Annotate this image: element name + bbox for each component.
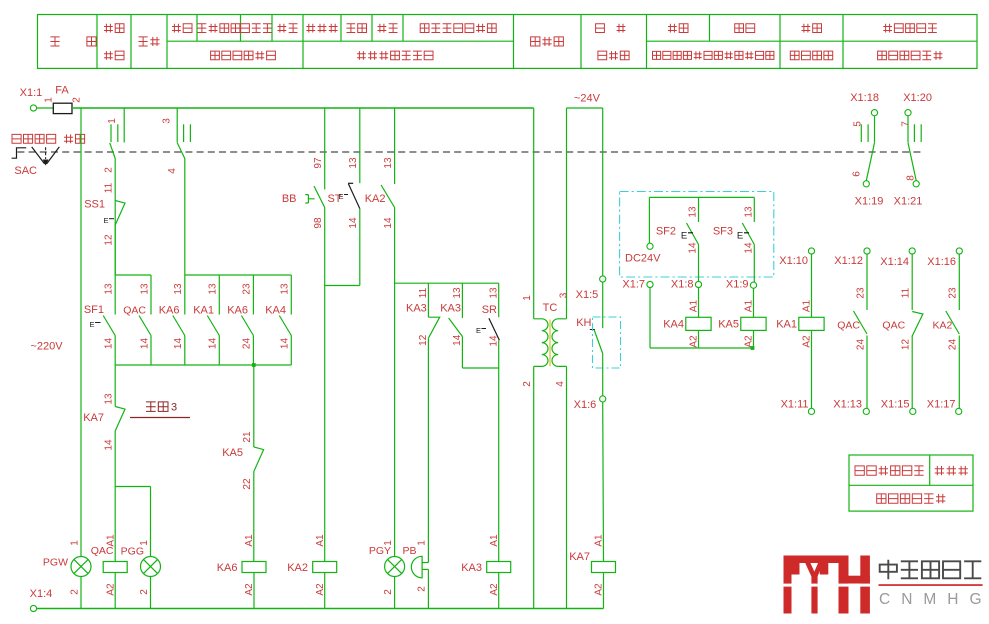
contact KA5 21-22 — [222, 365, 263, 562]
svg-text:SR: SR — [482, 304, 497, 316]
terminal X1:19 — [855, 181, 884, 208]
terminal X1:14 — [880, 248, 915, 268]
svg-text:KA5: KA5 — [718, 319, 739, 331]
svg-text:21: 21 — [242, 431, 253, 443]
svg-text:E: E — [681, 231, 687, 242]
terminal X1:6 — [574, 396, 606, 411]
terminal X1:12 — [834, 248, 870, 267]
transformer TC — [522, 108, 570, 609]
svg-text:X1:21: X1:21 — [894, 196, 923, 208]
contact KA3 11-12 — [406, 283, 440, 346]
terminal X1:16 — [927, 248, 962, 268]
svg-text:SS1: SS1 — [84, 198, 105, 210]
contact KA2 13-14 — [365, 108, 395, 229]
svg-text:3: 3 — [162, 118, 173, 124]
svg-text:1: 1 — [417, 540, 428, 546]
svg-text:KA1: KA1 — [193, 304, 214, 316]
svg-text:SAC: SAC — [14, 165, 37, 177]
svg-text:13: 13 — [104, 393, 115, 405]
svg-text:11: 11 — [104, 182, 115, 193]
button BB 97-98 — [282, 108, 325, 229]
svg-text:14: 14 — [452, 334, 463, 346]
terminal X1:17 — [927, 398, 962, 414]
svg-text:X1:13: X1:13 — [833, 398, 862, 410]
svg-text:13: 13 — [173, 283, 184, 295]
svg-text:14: 14 — [173, 338, 184, 350]
svg-text:A1: A1 — [315, 534, 326, 547]
svg-text:24: 24 — [948, 339, 959, 351]
svg-text:PGG: PGG — [121, 545, 144, 557]
svg-text:E: E — [338, 192, 343, 201]
terminal X1:20 — [903, 92, 932, 116]
svg-text:X1:20: X1:20 — [903, 92, 932, 104]
wire branch to PGG — [115, 487, 150, 557]
wire X1:6 to KA7 coil — [602, 402, 605, 562]
svg-text:1: 1 — [139, 540, 150, 546]
svg-text:14: 14 — [488, 335, 499, 347]
wire KA3a down to PB — [427, 338, 429, 562]
svg-text:X1:11: X1:11 — [781, 398, 809, 410]
logo CNMHG — [780, 556, 989, 614]
svg-text:KA2: KA2 — [287, 562, 308, 574]
svg-text:14: 14 — [208, 338, 219, 350]
contact QAC 13-14 — [123, 275, 151, 365]
svg-text:4: 4 — [167, 168, 178, 174]
svg-text:KA3: KA3 — [440, 302, 461, 314]
svg-text:X1:17: X1:17 — [927, 398, 956, 410]
terminal X1:11 — [781, 398, 815, 414]
svg-text:2: 2 — [383, 589, 394, 595]
contact KH — [576, 282, 602, 353]
svg-text:X1:10: X1:10 — [779, 255, 808, 267]
svg-text:X1:7: X1:7 — [622, 278, 645, 290]
terminal X1:1 — [20, 87, 43, 111]
svg-text:KA4: KA4 — [663, 319, 684, 331]
svg-text:13: 13 — [280, 283, 291, 295]
wire X1:1 to fuse — [37, 107, 54, 109]
svg-text:1: 1 — [383, 540, 394, 546]
svg-text:14: 14 — [688, 242, 699, 254]
svg-text:~220V: ~220V — [30, 340, 63, 352]
contact KA4 13-14 — [265, 275, 291, 365]
svg-text:2: 2 — [417, 586, 428, 592]
contact SF1 13-14 — [84, 275, 115, 365]
switch SS1 contact 11-12 — [84, 182, 125, 245]
svg-text:13: 13 — [104, 283, 115, 295]
contact QAC 23-24 — [837, 254, 867, 408]
svg-text:4: 4 — [555, 381, 566, 387]
switch SAC pole contact 5-6 — [852, 116, 875, 181]
svg-text:X1:5: X1:5 — [576, 289, 599, 301]
svg-text:22: 22 — [242, 478, 253, 490]
svg-text:14: 14 — [743, 242, 754, 254]
coil KA1 — [776, 254, 824, 408]
svg-text:97: 97 — [313, 157, 324, 169]
contact SF2 13-14 — [656, 197, 699, 253]
table header labels — [50, 24, 942, 60]
svg-text:14: 14 — [348, 217, 359, 229]
svg-text:FA: FA — [55, 84, 69, 96]
svg-text:14: 14 — [280, 338, 291, 350]
svg-text:CNMHG: CNMHG — [879, 591, 989, 608]
svg-text:2: 2 — [104, 167, 115, 173]
terminal X1:21 — [894, 181, 923, 208]
svg-text:SF3: SF3 — [713, 225, 733, 237]
svg-text:KA5: KA5 — [222, 447, 243, 459]
wire KH down — [602, 354, 604, 396]
svg-text:A1: A1 — [689, 299, 700, 312]
svg-text:24: 24 — [242, 338, 253, 350]
svg-text:KA6: KA6 — [217, 562, 238, 574]
svg-text:6: 6 — [852, 171, 863, 177]
svg-text:5: 5 — [853, 121, 864, 127]
contact KA6 23-24 — [227, 275, 253, 365]
svg-text:DC24V: DC24V — [625, 252, 661, 264]
svg-text:14: 14 — [383, 217, 394, 229]
svg-text:14: 14 — [139, 338, 150, 350]
contact QAC 11-12 — [882, 254, 922, 408]
svg-text:KA2: KA2 — [932, 320, 952, 332]
svg-text:23: 23 — [855, 287, 866, 299]
node junction bus2-KA5 — [252, 363, 256, 367]
svg-text:QAC: QAC — [123, 304, 146, 316]
svg-text:1: 1 — [69, 540, 80, 546]
coil KA3 — [461, 534, 510, 609]
label ~220V — [30, 340, 63, 352]
svg-text:13: 13 — [743, 206, 754, 218]
svg-text:E: E — [89, 320, 94, 329]
box DC24V control panel cyan — [620, 192, 774, 278]
coil KA4 — [663, 288, 711, 348]
svg-text:X1:9: X1:9 — [726, 278, 749, 290]
svg-text:A1: A1 — [105, 534, 116, 547]
buzzer PB — [402, 540, 428, 609]
svg-text:98: 98 — [313, 217, 324, 229]
svg-text:13: 13 — [139, 283, 150, 295]
svg-text:1: 1 — [43, 97, 54, 103]
contact KA2 23-24 — [932, 254, 959, 408]
svg-text:14: 14 — [104, 439, 115, 451]
svg-text:2: 2 — [72, 97, 83, 103]
svg-text:A1: A1 — [744, 299, 755, 312]
svg-text:BB: BB — [282, 193, 297, 205]
wire 24V bus — [567, 108, 603, 276]
switch SAC pole contact 7-8 — [901, 116, 922, 181]
svg-text:X1:16: X1:16 — [927, 256, 956, 268]
svg-text:3: 3 — [171, 401, 177, 413]
svg-text:A1: A1 — [489, 534, 500, 547]
terminal X1:7 — [622, 278, 653, 290]
switch SAC pole contact 1-2 — [104, 108, 125, 173]
svg-text:X1:6: X1:6 — [574, 399, 597, 411]
coil KA7 — [569, 534, 615, 609]
switch SAC pole contact 3-4 — [162, 108, 191, 174]
svg-text:13: 13 — [488, 287, 499, 299]
svg-text:KA7: KA7 — [83, 412, 104, 424]
wire bus2 — [115, 364, 291, 366]
contact KA7 13-14 — [83, 365, 125, 562]
svg-text:2: 2 — [522, 381, 533, 387]
wire SF2 down — [698, 245, 700, 282]
contact SF3 13-14 — [713, 197, 755, 253]
node junction KA5-A2 — [751, 346, 755, 350]
wire BB-ST join — [325, 285, 360, 287]
wire SS1 to bus1 — [114, 225, 116, 275]
svg-text:SF1: SF1 — [84, 304, 104, 316]
wire BB down — [324, 208, 326, 562]
button ST 13-14 — [327, 108, 359, 229]
wire pole1 to bus — [114, 159, 116, 276]
svg-text:TC: TC — [543, 302, 558, 314]
wire mid bus — [395, 282, 499, 284]
svg-text:X1:4: X1:4 — [30, 588, 53, 600]
svg-text:8: 8 — [906, 175, 917, 181]
wire KA3b to SR join — [462, 337, 498, 369]
svg-text:KA3: KA3 — [406, 302, 427, 314]
svg-text:13: 13 — [348, 157, 359, 169]
terminal X1:4 — [30, 588, 53, 612]
box KH cyan — [593, 317, 621, 368]
svg-text:X1:19: X1:19 — [855, 196, 884, 208]
svg-text:A1: A1 — [594, 534, 605, 547]
svg-text:2: 2 — [139, 589, 150, 595]
coil KA2 — [287, 534, 336, 609]
terminal X1:15 — [881, 398, 916, 414]
wire SAC mechanical dashed link — [17, 151, 921, 153]
terminal X1:10 — [779, 248, 814, 267]
wire DC bus — [649, 196, 754, 198]
svg-text:E: E — [476, 326, 481, 335]
svg-text:14: 14 — [104, 338, 115, 350]
svg-text:1: 1 — [522, 295, 533, 301]
contact KA1 13-14 — [193, 275, 219, 365]
svg-text:13: 13 — [452, 287, 463, 299]
button SR 13-14 — [476, 283, 499, 346]
svg-text:24: 24 — [855, 339, 866, 351]
signal table — [849, 455, 973, 511]
wire bus1 left segment — [115, 274, 151, 276]
contact KA6 13-14 — [159, 275, 185, 365]
svg-text:X1:8: X1:8 — [671, 278, 694, 290]
function table header grid — [38, 15, 978, 69]
lamp PGY — [369, 540, 405, 609]
svg-text:X1:18: X1:18 — [850, 92, 879, 104]
terminal X1:13 — [833, 398, 869, 414]
svg-text:A1: A1 — [244, 534, 255, 547]
svg-text:QAC: QAC — [837, 320, 860, 332]
svg-text:~24V: ~24V — [574, 92, 601, 104]
note 见注3 — [130, 401, 190, 417]
wire KA2 contact down — [394, 208, 396, 557]
wire pole2 down — [184, 158, 186, 275]
svg-text:3: 3 — [559, 292, 570, 298]
wire SR down — [498, 340, 500, 561]
wire ST down — [359, 209, 361, 286]
svg-text:12: 12 — [901, 339, 912, 351]
svg-text:11: 11 — [418, 287, 429, 298]
wire L+ top rail — [72, 107, 534, 109]
contact KA3 13-14 — [440, 283, 463, 346]
lamp PGW — [43, 108, 91, 609]
svg-text:KA7: KA7 — [569, 551, 590, 563]
svg-text:12: 12 — [418, 334, 429, 346]
coil QAC — [91, 534, 127, 609]
svg-text:X1:14: X1:14 — [880, 256, 909, 268]
svg-text:QAC: QAC — [882, 320, 905, 332]
coil KA5 — [718, 288, 766, 348]
fuse FA — [43, 84, 82, 113]
svg-text:KA3: KA3 — [461, 562, 482, 574]
wire bus1 right segment — [185, 274, 291, 276]
wire X1:7 down — [650, 288, 753, 348]
svg-text:2: 2 — [69, 589, 80, 595]
svg-text:KA4: KA4 — [265, 304, 286, 316]
svg-text:KA2: KA2 — [365, 193, 386, 205]
svg-text:PB: PB — [402, 545, 416, 557]
svg-text:23: 23 — [948, 287, 959, 299]
svg-text:X1:15: X1:15 — [881, 398, 910, 410]
wire SF3 down — [753, 245, 755, 283]
svg-text:11: 11 — [901, 287, 912, 298]
svg-text:1: 1 — [107, 118, 118, 124]
svg-text:E: E — [737, 231, 743, 242]
svg-text:12: 12 — [104, 234, 115, 246]
terminal X1:5 — [576, 276, 606, 301]
coil KA6 — [217, 534, 266, 609]
switch SAC symbol — [12, 134, 85, 177]
svg-text:13: 13 — [383, 157, 394, 169]
svg-text:KA6: KA6 — [159, 304, 180, 316]
svg-text:KA1: KA1 — [776, 319, 797, 331]
svg-text:13: 13 — [208, 283, 219, 295]
svg-text:13: 13 — [688, 206, 699, 218]
label ~24V — [574, 92, 601, 104]
svg-text:E: E — [103, 216, 108, 225]
svg-text:X1:12: X1:12 — [834, 255, 863, 267]
svg-text:7: 7 — [901, 121, 912, 127]
svg-text:23: 23 — [242, 283, 253, 295]
terminal DC24V — [625, 197, 661, 264]
svg-text:PGW: PGW — [43, 556, 68, 568]
terminal X1:9 — [726, 278, 757, 290]
wire N bottom rail — [34, 608, 604, 610]
svg-text:KA6: KA6 — [227, 304, 248, 316]
terminal X1:18 — [850, 92, 879, 116]
lamp PGG — [121, 540, 161, 609]
svg-text:A1: A1 — [802, 299, 813, 312]
svg-text:X1:1: X1:1 — [20, 87, 43, 99]
svg-text:KH: KH — [576, 317, 591, 329]
svg-text:SF2: SF2 — [656, 225, 676, 237]
terminal X1:8 — [671, 278, 702, 290]
